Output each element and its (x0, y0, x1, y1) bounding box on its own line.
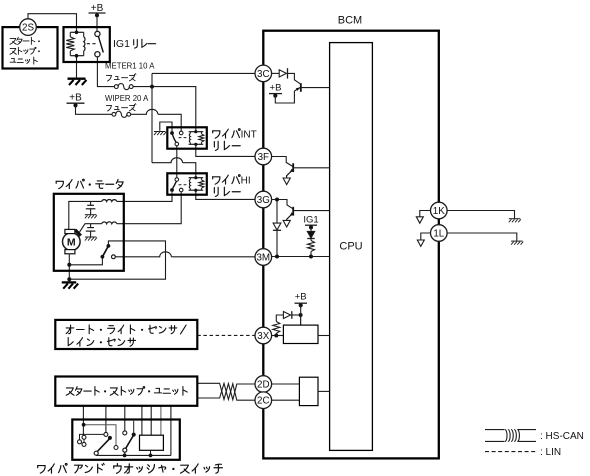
svg-text:3F: 3F (258, 152, 269, 163)
node D3 cathode junction (275, 255, 279, 259)
svg-text:+B: +B (295, 292, 307, 303)
relay IG1 switch (95, 31, 100, 36)
wiper switch arm SW1 (94, 451, 98, 455)
label auto light / rain sensor (66, 325, 74, 334)
wire row1 to motor brush (69, 201, 102, 229)
connector 3F (255, 148, 272, 165)
transistor Q1 (PNP) (300, 83, 302, 92)
svg-text:: LIN: : LIN (540, 447, 561, 458)
svg-text:1L: 1L (433, 229, 444, 240)
inductor L2 (high speed) (102, 222, 117, 224)
svg-text:+B: +B (69, 93, 82, 104)
transistor Q3 (292, 207, 294, 216)
start-stop unit box (bottom) (55, 377, 197, 406)
node R1 junction (309, 255, 313, 259)
wire IG1 coil to ground (76, 56, 78, 79)
wire 2S to IG1 relay coil (28, 14, 77, 33)
resistor R2 (275, 333, 277, 335)
start-stop unit box (top) (3, 27, 58, 68)
legend dashed = LIN (485, 451, 536, 453)
wire motor park switch to 3M (hop) (115, 252, 255, 257)
capacitor C2 (90, 224, 92, 228)
relay box INT (167, 127, 207, 148)
wire 1L internal arrow (421, 233, 431, 240)
relay INT internals: switch (170, 131, 174, 135)
node rail junction SW2 (123, 454, 127, 458)
ground (INT relay) (154, 131, 166, 133)
wire HI relay contact to motor high-speed brush (117, 192, 181, 224)
power +B (3X pull-up) (295, 302, 308, 304)
wire HI coil to 3G (196, 190, 255, 199)
connector 1K (431, 202, 448, 219)
junction node (150, 85, 154, 89)
connector 2D (255, 376, 272, 393)
power +B (Q1 emitter) (269, 93, 282, 95)
connector 3G (255, 191, 272, 208)
label wiper HI relay (213, 177, 220, 184)
label wiper motor (56, 181, 63, 188)
washer unit W1 (140, 435, 164, 450)
relay box HI (167, 173, 207, 194)
connector 3C (255, 65, 272, 82)
svg-text:3G: 3G (257, 195, 270, 206)
motor M1 (wiper motor) (63, 233, 81, 251)
wire 3M to CPU (272, 256, 330, 258)
wire junction up to 3C (152, 73, 255, 86)
svg-text:METER1 10 A: METER1 10 A (105, 62, 155, 71)
label start-stop unit (top box) (10, 38, 16, 44)
wire HI relay common to wiper motor low-speed brush (117, 192, 172, 201)
relay INT coil block (189, 131, 204, 133)
svg-text:HI: HI (241, 176, 251, 187)
wire INT coil to 3F (196, 144, 255, 156)
svg-text:2D: 2D (257, 380, 270, 391)
svg-text:3M: 3M (256, 253, 270, 264)
svg-text:1K: 1K (433, 206, 445, 217)
auto light/rain sensor box (55, 320, 197, 349)
diode D4 (IG1) (310, 227, 312, 231)
ground (C2) (85, 236, 97, 238)
svg-text:2C: 2C (257, 396, 270, 407)
relay box IG1 (64, 27, 110, 62)
legend twisted pair = HS-CAN (485, 429, 505, 431)
relay HI internals: switch (175, 178, 179, 182)
svg-text:WIPER 20 A: WIPER 20 A (105, 94, 149, 103)
IG1 feed: terminal (305, 224, 317, 226)
relay HI coil block (189, 177, 204, 179)
svg-text:: HS-CAN: : HS-CAN (540, 431, 584, 442)
ground (IG1 relay) (68, 78, 86, 80)
bottom rail (96, 454, 171, 456)
CAN interface IC U2 (299, 377, 318, 405)
node rail junction W1 (149, 454, 153, 458)
svg-text:3X: 3X (257, 331, 269, 342)
svg-text:BCM: BCM (338, 15, 362, 27)
washer switch SW2 (123, 431, 127, 435)
capacitor C1 (90, 201, 92, 205)
wire fuse to INT relay switch (hop over vertical) (131, 109, 182, 131)
interface IC U1 (LIN) (283, 325, 318, 343)
label start-stop unit (bottom box) (66, 388, 74, 395)
svg-text:CPU: CPU (339, 241, 362, 253)
node R2 junction at 3X (274, 334, 278, 338)
svg-text:M: M (67, 237, 76, 249)
wire below motor to ground (68, 279, 70, 282)
resistor R1 (310, 239, 312, 241)
svg-text:2S: 2S (22, 23, 34, 34)
wire INT relay common to ground (160, 122, 172, 131)
node at 3G (272, 200, 293, 209)
wiper and washer switch box (72, 420, 180, 460)
CPU box (330, 43, 373, 451)
switch contacts left cluster (82, 435, 86, 439)
wire row2 to motor diagonal brush (79, 224, 101, 233)
dashed LIN line sensor to 3X (197, 334, 255, 336)
relay IG1 coil (83, 32, 85, 37)
svg-text:+B: +B (270, 83, 282, 94)
connector 3X (255, 327, 272, 344)
park switch contact (112, 255, 116, 259)
wire 3F to transistor Q2 (272, 157, 293, 167)
wire diode to transistor Q1 collector (288, 73, 301, 84)
wire 1K to ground (447, 211, 515, 219)
wire IG1 switch to METER1 fuse and node at (152,86.6) (97, 57, 114, 87)
svg-text:+B: +B (91, 3, 104, 14)
wire 3X to interface IC (272, 335, 284, 337)
wires 2D/2C to CAN IC (272, 383, 300, 385)
wiper motor box (54, 194, 124, 271)
diode D1 (279, 70, 286, 77)
wire motor return loop (70, 241, 165, 279)
relay IG1 internals: resistor (70, 31, 83, 33)
power +B (top) (89, 12, 106, 14)
svg-text:IG1: IG1 (303, 214, 318, 225)
svg-text:3C: 3C (257, 69, 270, 80)
node motor common (inside box) (67, 263, 71, 267)
connector 1L (431, 225, 448, 242)
internal ground arrow (Q3) (283, 220, 290, 227)
diode D3 (3G to 3M) (276, 202, 278, 224)
connector 2C (255, 392, 272, 409)
fuse METER1 10A (118, 84, 129, 90)
label wiper INT relay (213, 131, 220, 138)
power +B (wiper fuse) (67, 102, 85, 104)
ground (C1) (85, 214, 97, 216)
wire 3C to diode (272, 72, 280, 74)
connector 2S (20, 19, 37, 36)
wires start-stop unit to switch (82, 406, 84, 435)
internal ground arrow (Q2) (283, 178, 290, 185)
wire INT relay contact to HI relay contact (176, 146, 178, 177)
svg-text:INT: INT (241, 130, 257, 141)
wire 1K internal arrow (420, 211, 431, 217)
diode D5 (283, 312, 290, 319)
connector 3M (255, 249, 272, 266)
node motor ground junction (67, 277, 71, 281)
internal rail (switch box) (84, 425, 116, 446)
park switch arm (102, 246, 108, 257)
wire +B to WIPER fuse (76, 105, 113, 114)
svg-text:IG1: IG1 (113, 38, 130, 50)
wire motor to park switch common (68, 254, 70, 279)
wire fuse to junction (133, 87, 196, 132)
label wiper and washer switch (38, 466, 45, 474)
inductor L1 (motor noise filter, low speed) (102, 200, 117, 202)
node +B pull-up junction (299, 313, 303, 317)
wire junction down then right to wiper HI relay coil (152, 87, 196, 178)
ground (motor) (62, 281, 77, 283)
fuse WIPER 20A (116, 111, 127, 117)
wire 1L to ground (447, 233, 517, 241)
BCM box (263, 31, 439, 459)
transistor Q2 (292, 163, 294, 172)
twisted pair wires from start-stop unit (197, 383, 255, 399)
